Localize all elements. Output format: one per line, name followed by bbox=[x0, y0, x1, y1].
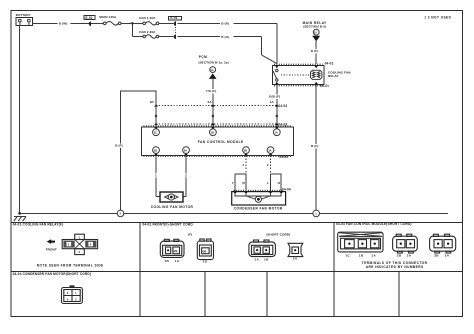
svg-text:NOTE SEEN FROM TERMINAL SIDE: NOTE SEEN FROM TERMINAL SIDE bbox=[37, 264, 104, 268]
connector 04-02 front 1P bbox=[197, 239, 213, 264]
terminal arrows at connector line crossings bbox=[154, 104, 278, 125]
wire module to cooling fan motor left bbox=[155, 155, 160, 196]
svg-text:1A: 1A bbox=[270, 100, 275, 104]
ground symbol bbox=[14, 217, 26, 222]
svg-text:2: 2 bbox=[267, 163, 269, 167]
svg-text:ARE INDICATED BY NUMBERS: ARE INDICATED BY NUMBERS bbox=[366, 265, 424, 269]
svg-text:2A: 2A bbox=[407, 254, 412, 258]
connector view 04-01 relay bbox=[62, 234, 97, 254]
connector 04-03 2P (3B 3A) bbox=[430, 234, 456, 257]
svg-text:1B: 1B bbox=[264, 257, 269, 261]
svg-text:4/B: 4/B bbox=[174, 249, 178, 253]
wire battery to fuses bbox=[33, 22, 104, 26]
svg-text:04-01 COOLING FAN RELAY(F): 04-01 COOLING FAN RELAY(F) bbox=[13, 222, 64, 226]
ground node 2 bbox=[117, 210, 124, 217]
junction ground node bbox=[18, 212, 21, 215]
svg-text:B/B (F): B/B (F) bbox=[269, 95, 280, 99]
svg-text:04-03: 04-03 bbox=[279, 155, 288, 159]
svg-text:1B: 1B bbox=[211, 130, 214, 134]
svg-text:(SECTION B-1a, 2a): (SECTION B-1a, 2a) bbox=[198, 60, 228, 64]
svg-text:FAN 2 30A: FAN 2 30A bbox=[139, 30, 156, 34]
wire module ground pin to ground bus bbox=[115, 91, 156, 210]
svg-text:1C: 1C bbox=[345, 254, 350, 258]
wire relay contact output to module pin 1A bbox=[269, 85, 280, 128]
module pin 1A (top) bbox=[273, 129, 280, 136]
module pin 2A (bottom) bbox=[183, 147, 190, 154]
svg-text:B (F): B (F) bbox=[115, 144, 123, 148]
fuse FAN 2 30A bbox=[132, 25, 173, 39]
svg-text:2A: 2A bbox=[184, 148, 187, 152]
svg-text:1A: 1A bbox=[175, 259, 180, 263]
svg-text:COOLING FAN MOTOR: COOLING FAN MOTOR bbox=[151, 205, 194, 209]
wire relay coil to ground bus bbox=[311, 85, 319, 211]
connector line 04-03 (dashed) bbox=[156, 122, 287, 126]
svg-text:04-03 FAN CONTROL MODULE(SHORT: 04-03 FAN CONTROL MODULE(SHORT CORD) bbox=[336, 222, 412, 226]
svg-text:E-01: E-01 bbox=[170, 16, 177, 20]
svg-text:1A: 1A bbox=[371, 254, 376, 258]
module U1 FAN CONTROL MODULE bbox=[142, 126, 294, 159]
svg-text:2: 2 bbox=[185, 173, 187, 177]
svg-text:3A: 3A bbox=[445, 254, 450, 258]
connector line 04-02 (dashed) bbox=[156, 104, 287, 108]
svg-text:04-04: 04-04 bbox=[282, 188, 291, 192]
svg-text:(SHORT CORD): (SHORT CORD) bbox=[266, 233, 290, 237]
connector E-01 on battery wire bbox=[84, 16, 95, 27]
node PCM bbox=[198, 55, 228, 127]
svg-text:RELAY: RELAY bbox=[328, 74, 340, 78]
module pin 3B (bottom) bbox=[243, 147, 250, 154]
svg-text:04-01: 04-01 bbox=[325, 61, 334, 65]
svg-text:PCM: PCM bbox=[199, 55, 207, 59]
connector 04-04 4P bbox=[62, 285, 83, 303]
ground node 1 bbox=[313, 210, 320, 217]
motor M1 COOLING FAN MOTOR bbox=[151, 192, 194, 209]
svg-text:04-04 CONDENSER FAN MOTOR(SHOR: 04-04 CONDENSER FAN MOTOR(SHORT CORD) bbox=[13, 272, 91, 276]
module pin 3A (bottom) bbox=[267, 147, 274, 154]
module pin 1B (top) bbox=[210, 129, 217, 136]
svg-text:1: 1 bbox=[155, 173, 157, 177]
junction node bbox=[131, 22, 134, 25]
svg-text:04-01: 04-01 bbox=[320, 84, 329, 88]
svg-text:3A: 3A bbox=[268, 148, 271, 152]
wires module to condenser fan motor (short cord) bbox=[232, 155, 291, 191]
module pin 1C (top) bbox=[153, 129, 160, 136]
svg-text:B (W): B (W) bbox=[59, 22, 68, 26]
relay K1 COOLING FAN RELAY bbox=[273, 61, 352, 88]
svg-text:2A: 2A bbox=[293, 257, 298, 261]
connector 04-03 2P (2B 2A) bbox=[393, 234, 418, 257]
svg-text:3B: 3B bbox=[244, 148, 247, 152]
svg-text:2A: 2A bbox=[208, 100, 213, 104]
svg-text:2B: 2B bbox=[397, 254, 402, 258]
svg-text:1B: 1B bbox=[150, 100, 155, 104]
svg-text:(SECTION B-3): (SECTION B-3) bbox=[303, 25, 326, 29]
wire fuse FAN1 to relay contact bbox=[177, 22, 276, 64]
svg-text:3B: 3B bbox=[434, 254, 439, 258]
svg-text:L: L bbox=[267, 181, 269, 185]
svg-text:R (F): R (F) bbox=[311, 49, 319, 53]
svg-text:2A: 2A bbox=[203, 260, 208, 264]
connector E-01 on fuse outputs bbox=[169, 16, 182, 39]
svg-text:1A: 1A bbox=[254, 257, 259, 261]
svg-text:MAIN 120A: MAIN 120A bbox=[99, 15, 117, 19]
svg-text:BATTERY: BATTERY bbox=[16, 13, 32, 17]
svg-text:1A: 1A bbox=[275, 130, 278, 134]
svg-text:FAN CONTROL MODULE: FAN CONTROL MODULE bbox=[198, 140, 244, 144]
svg-text:B (F): B (F) bbox=[311, 144, 319, 148]
svg-text:B (R): B (R) bbox=[221, 22, 229, 26]
connector 04-02 short cord 2P bbox=[249, 240, 276, 261]
svg-text:B (G): B (G) bbox=[221, 35, 229, 39]
svg-text:2B: 2B bbox=[154, 148, 157, 152]
front arrow bbox=[46, 239, 57, 251]
wire module to cooling fan motor right bbox=[183, 155, 187, 196]
svg-text:04-02 FRONT(F)-SHORT CORD: 04-02 FRONT(F)-SHORT CORD bbox=[143, 222, 194, 226]
svg-text:1 3 NOT USED: 1 3 NOT USED bbox=[424, 16, 451, 20]
module pin 2B (bottom) bbox=[153, 147, 160, 154]
fusible link MAIN 120A bbox=[99, 15, 131, 25]
svg-text:FRONT: FRONT bbox=[46, 247, 57, 251]
svg-text:4/B: 4/B bbox=[202, 249, 206, 253]
svg-text:1: 1 bbox=[242, 163, 244, 167]
ground bus wire bbox=[20, 212, 448, 214]
connector 04-02 front 2P bbox=[160, 239, 184, 263]
wire fuse FAN2 to relay contact bbox=[177, 35, 276, 64]
svg-text:04-02: 04-02 bbox=[278, 104, 287, 108]
svg-text:E-01: E-01 bbox=[85, 16, 92, 20]
connector 04-02 short cord 1P bbox=[288, 243, 303, 260]
node MAIN RELAY feed bbox=[303, 21, 327, 64]
connector 04-03 3P bbox=[338, 232, 383, 257]
svg-text:1C: 1C bbox=[154, 130, 157, 134]
svg-text:CONDENSER FAN MOTOR: CONDENSER FAN MOTOR bbox=[234, 206, 283, 210]
wire battery negative to ground bbox=[19, 26, 21, 214]
svg-text:Y/G (F): Y/G (F) bbox=[206, 89, 217, 93]
motor M2 CONDENSER FAN MOTOR bbox=[232, 190, 286, 210]
fuse FAN 1 30A bbox=[134, 16, 174, 25]
battery B+ bbox=[16, 13, 33, 25]
svg-text:1B: 1B bbox=[164, 259, 169, 263]
svg-text:FAN 1 30A: FAN 1 30A bbox=[139, 16, 156, 20]
svg-text:(F): (F) bbox=[188, 232, 192, 236]
svg-text:1B: 1B bbox=[359, 254, 364, 258]
